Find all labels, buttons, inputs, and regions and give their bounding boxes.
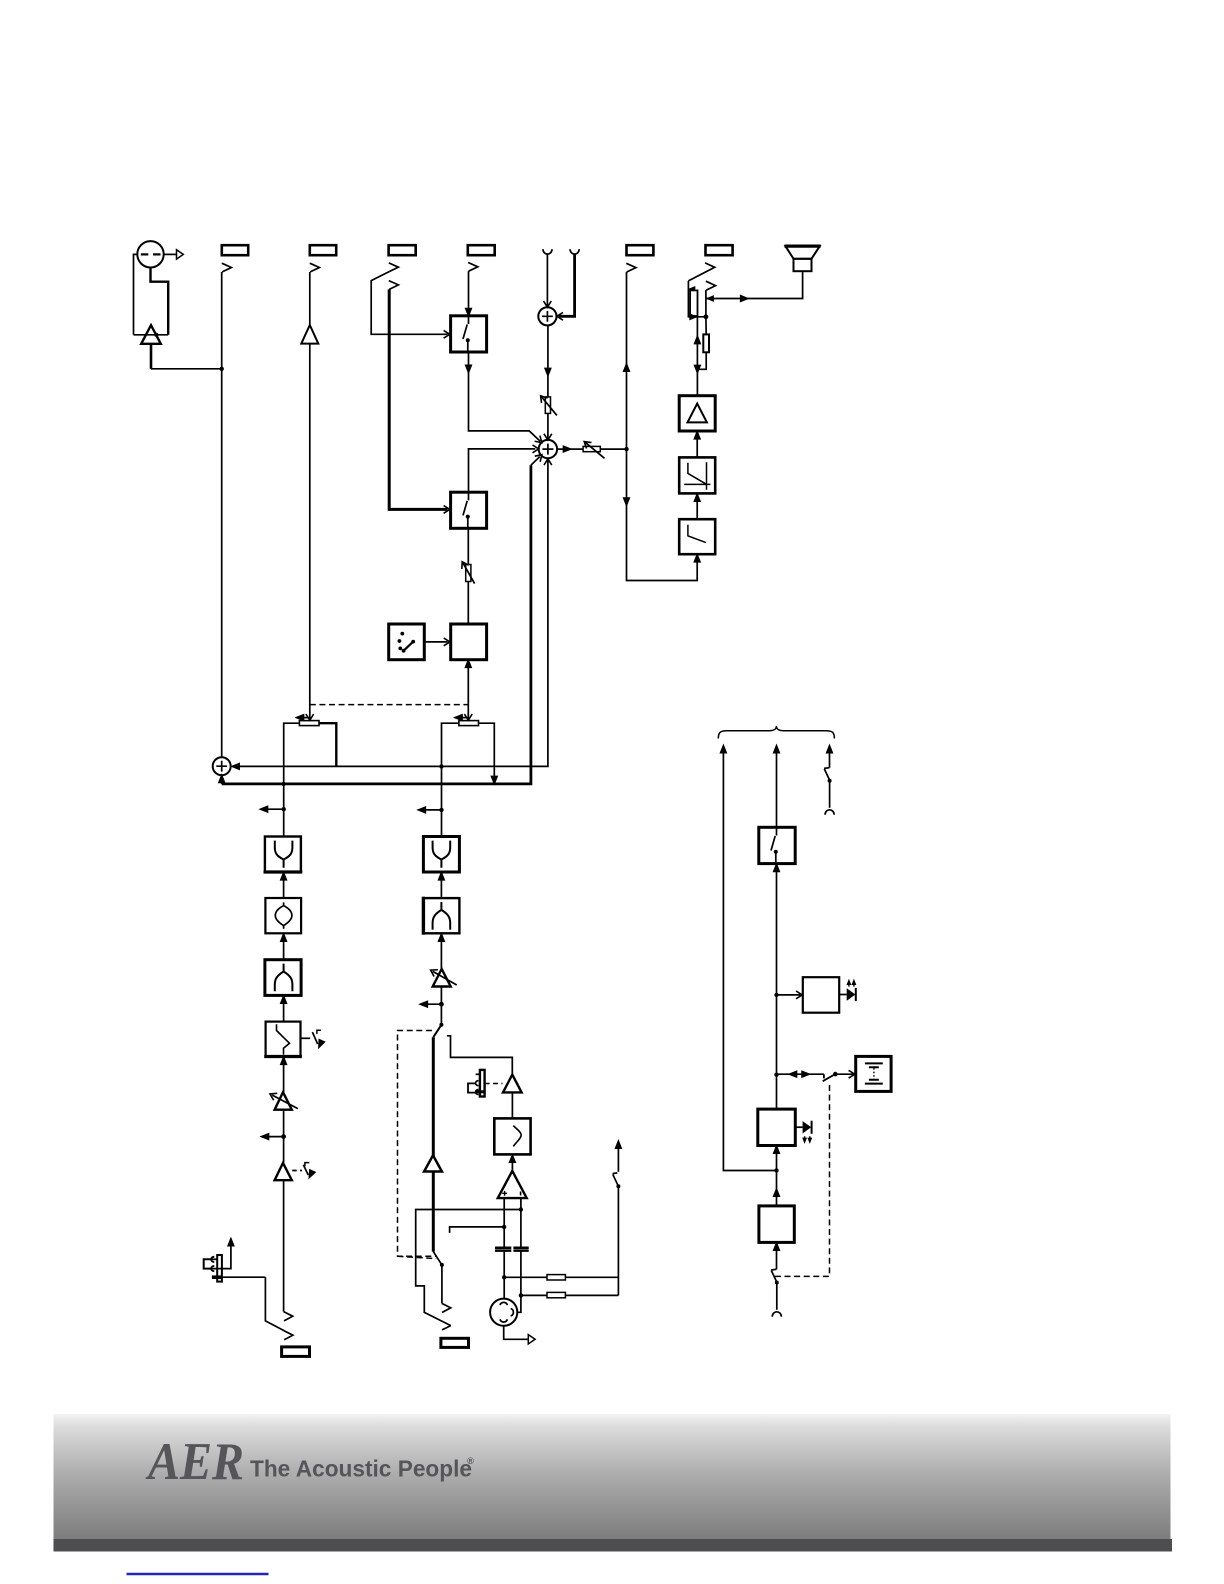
XLR out pin top <box>500 1302 507 1305</box>
XLR out ground arrow <box>504 1326 528 1340</box>
arrow right on speaker wire <box>741 296 748 301</box>
banner gradient bar <box>54 1414 1171 1539</box>
box A1 merge <box>265 837 301 873</box>
pot P2 body <box>459 721 479 726</box>
speaker wire <box>706 271 803 298</box>
bottom jack tip B <box>442 1326 451 1330</box>
LED 2 arrows <box>805 1136 810 1140</box>
power bottom switch <box>771 1269 777 1282</box>
SWB switch glyph <box>771 828 777 863</box>
wire M bottom to master bus <box>221 775 223 784</box>
wire C1-D1 <box>283 995 285 1021</box>
pot P2 wiper arrow left <box>457 717 467 719</box>
effect box EFX <box>451 624 487 660</box>
arrow down on SW1 output <box>466 365 471 372</box>
wire LIM1 to PA <box>696 432 698 458</box>
input 1 connector label <box>222 245 248 255</box>
tap arrow left ch2 low <box>422 1003 441 1005</box>
wire input 2 to amp <box>309 272 311 326</box>
wire input 1 down to monitor sum <box>221 272 223 758</box>
blue footer line <box>127 1573 269 1576</box>
SW1 switch glyph <box>463 317 469 352</box>
power wire W2 <box>776 747 778 828</box>
node W1 return <box>774 1168 778 1172</box>
arrow into pot1 wiper <box>306 714 314 720</box>
bottom jack column: feed taps <box>416 1210 521 1326</box>
input 4 jack tip <box>468 263 478 272</box>
wire EFX bottom to pot2, up-arrow into EFX <box>467 660 469 720</box>
limiter box LIM1 <box>679 457 715 493</box>
balanced driver T7 <box>498 1171 527 1198</box>
pot P2 left terminal <box>442 723 459 766</box>
wire DI circle bottom step <box>151 268 169 335</box>
footswitch open box <box>468 1083 475 1092</box>
wire sub-sum to VR1 to S <box>547 325 549 439</box>
rotary selector box SEL <box>389 624 425 660</box>
wire A2-B2 <box>440 872 442 898</box>
wire below LED box 2 <box>776 1146 778 1206</box>
insert wire up arrow <box>617 1148 619 1172</box>
wire T6 down to fx switch <box>440 987 442 1025</box>
diagonal master bus into S lower-left <box>531 457 540 466</box>
arrow diag into sum upper-left <box>535 436 545 446</box>
speaker jack label <box>706 245 733 255</box>
wire hook L to sub-sum <box>546 254 548 306</box>
power wire W1 <box>723 747 775 1171</box>
SEL dots and lever <box>400 632 404 636</box>
insert return column <box>617 1186 619 1295</box>
footswitch pin hooks <box>476 1081 479 1095</box>
node jack main line <box>704 314 709 319</box>
input 4 connector label <box>468 245 495 255</box>
arrow SEL to EFX <box>424 641 447 643</box>
resistor R2v <box>703 334 709 352</box>
LED 2 symbol <box>795 1126 802 1128</box>
limiter box LIM2 <box>679 519 715 554</box>
mute amp T5 <box>275 1163 292 1180</box>
battery symbol <box>865 1063 883 1083</box>
wire SW1 to sum (upper diagonal) <box>469 352 541 441</box>
wire horizontal through DI triangle <box>134 334 169 336</box>
DI output arrow (hollow) <box>164 253 176 255</box>
arrow up on PA feed <box>695 337 700 344</box>
footswitch connector insulator <box>480 1070 485 1097</box>
svg-text:®: ® <box>467 1456 474 1467</box>
speaker jack tip A <box>688 263 714 281</box>
sub-sum circle <box>538 307 556 325</box>
wire to power connector hook <box>776 1283 778 1310</box>
arrow down into S top <box>544 434 552 440</box>
arrow into switchbox SW2 <box>444 506 450 514</box>
capacitor C1 <box>495 1248 511 1251</box>
tap arrow left ch1 <box>263 808 284 810</box>
arrow up into S from below <box>544 459 552 465</box>
LIM2 curve glyph <box>688 525 706 543</box>
battery box <box>856 1056 891 1091</box>
bottom jack tip A <box>442 1303 451 1312</box>
D1 bypass switch <box>301 1037 310 1039</box>
input 3 jack tip A <box>389 263 399 272</box>
wire B2 to T6 <box>440 933 442 969</box>
bottom jack label <box>441 1338 469 1347</box>
variable amp T4 <box>275 1092 292 1110</box>
resistor Rh1 <box>504 1276 547 1278</box>
speaker body <box>794 259 812 271</box>
node on line-out column <box>624 447 628 451</box>
XLR out pin bottom <box>500 1319 507 1322</box>
wire T4 down <box>283 1110 285 1163</box>
arrow up into M bottom <box>219 776 224 783</box>
line out label <box>627 245 654 255</box>
DI jack switch arm <box>265 1277 284 1330</box>
bypass buffer amp triangle <box>424 1155 442 1171</box>
speaker horn <box>786 246 820 259</box>
tap arrow left ch1 low <box>264 1136 284 1138</box>
input 2 amp triangle <box>301 325 318 344</box>
speaker jack tip B <box>706 281 716 290</box>
variable resistor VR2 <box>466 565 471 582</box>
line out jack tip <box>626 263 636 272</box>
arrow into sum left <box>533 445 539 453</box>
XLR DI connector: open box <box>204 1259 213 1268</box>
pot P1 left terminal <box>284 723 300 784</box>
master bus wire (bold) <box>222 465 531 784</box>
wire B1-C1 <box>283 933 285 959</box>
svg-text:AER: AER <box>145 1433 244 1491</box>
tap arrow left ch2 <box>420 809 441 811</box>
thick bypass wire <box>432 1037 435 1251</box>
wire ground to jack arm <box>222 1276 265 1278</box>
bottom jack contact stub <box>450 1227 505 1233</box>
node input1/DI junction <box>220 367 224 371</box>
banner dark strip <box>54 1539 1173 1552</box>
wire Tfs to FILT <box>511 1092 513 1118</box>
XLR insulator bar <box>217 1255 222 1282</box>
pot P1 right terminal <box>319 723 336 766</box>
power brace <box>718 726 834 739</box>
variable amp T6 <box>433 969 451 987</box>
resistor R1v <box>690 290 697 316</box>
input 2 connector label <box>310 245 336 255</box>
variable resistor VR1 <box>545 397 550 414</box>
node DI triangle right <box>154 333 158 337</box>
switch box SW1 <box>451 316 487 352</box>
T7 minus tick <box>520 1192 522 1196</box>
LED 1 symbol <box>839 994 847 996</box>
S output arrow right <box>557 448 564 450</box>
wire D1 to T4 <box>283 1057 285 1093</box>
box A2 merge <box>423 837 459 873</box>
ganged dashed link between pots <box>310 704 469 706</box>
arrow down on line-out column <box>624 498 629 505</box>
filter box FILT <box>494 1118 530 1154</box>
sum circle S <box>539 440 557 458</box>
input 1 jack tip <box>222 263 232 272</box>
arrow down mid <box>545 369 550 376</box>
battery link wire with double arrows <box>777 1073 824 1075</box>
arrow into switchbox SW1 <box>444 330 450 338</box>
DI output circle <box>137 241 163 267</box>
wire DI left loop <box>134 254 138 334</box>
XLR pin line 2 to up arrow <box>212 1244 231 1269</box>
PA triangle <box>688 404 707 423</box>
wire LIM2 to LIM1 <box>696 494 698 519</box>
wire channel2 chain top <box>441 766 443 836</box>
DI jack tip A <box>284 1312 293 1321</box>
fx send contact stub <box>447 1036 512 1075</box>
switch box SW2 <box>451 492 487 528</box>
capacitor C2 <box>513 1248 528 1251</box>
wire DI amp to input1 bus <box>150 344 153 369</box>
wire T7 to FILT with up arrow <box>511 1154 513 1171</box>
DI jack tip B <box>284 1331 293 1340</box>
SW2 switch glyph <box>463 493 469 528</box>
node on line A <box>502 1275 506 1279</box>
wire jack tip A down (left bypass) <box>688 281 705 317</box>
XLR pin line 1 <box>212 1258 217 1260</box>
wire jack main line <box>705 290 707 317</box>
dashed mechanical link <box>775 1084 830 1277</box>
aux input hook L <box>543 249 552 254</box>
arrow into pot2 wiper <box>464 714 472 720</box>
arrow left toward jack <box>707 296 713 301</box>
LED 1 light arrows <box>849 982 854 987</box>
LED box 2 <box>758 1109 796 1145</box>
LIM1 curve glyph <box>684 462 710 490</box>
aux input hook R <box>570 249 579 254</box>
power wire W3 with switch <box>829 747 831 768</box>
box B2 split <box>423 898 459 933</box>
box C1 split <box>265 960 301 996</box>
insert switch arm <box>613 1173 619 1186</box>
pot P2 right terminal <box>479 723 495 783</box>
DI circle pin dashes <box>141 253 149 255</box>
footswitch dashed to mute amp <box>485 1083 503 1085</box>
arrow up into LIM2 bottom <box>695 555 700 562</box>
T5 bypass dashed switch <box>292 1170 302 1172</box>
wires T7 to caps <box>504 1198 521 1247</box>
node to LED box 1 <box>774 993 778 997</box>
wire below SWB <box>776 864 778 1110</box>
W3 wire to connector hook <box>829 781 831 808</box>
input 3 switch arm to ring wire <box>371 272 447 335</box>
footswitch pin ground bar <box>476 1090 485 1093</box>
node on line B <box>519 1293 523 1297</box>
wire main feed to PA <box>696 317 698 396</box>
wire input 2 amp to pot 1 <box>309 344 311 720</box>
wire VR3 to line-out column <box>600 448 626 450</box>
pot P1 body <box>299 721 319 726</box>
pot P1 wiper arrow left <box>299 717 309 719</box>
battery switch arm <box>823 1074 836 1081</box>
dashed bypass frame <box>398 1031 437 1257</box>
W3 switch arm <box>824 768 830 780</box>
T7 plus mark <box>502 1191 507 1196</box>
arrow left at resistor top <box>689 287 694 291</box>
wire VR2 to effect box <box>467 582 469 624</box>
wire input 4 down <box>468 271 470 315</box>
node P1 left on master bus <box>282 782 286 786</box>
wire input 3 thick to SW2 <box>389 289 447 509</box>
wire resistor R2v branch <box>697 317 706 370</box>
arrow right on bottom link <box>690 314 696 319</box>
wire line-out column <box>627 272 698 581</box>
arrow down at rejoin <box>695 366 700 373</box>
DI jack label <box>282 1347 310 1357</box>
dashed link to jack arm <box>398 1256 437 1258</box>
bottom jack switch arm from bypass <box>433 1252 442 1265</box>
XLR pin hooks <box>211 1257 214 1272</box>
wires caps down <box>504 1251 521 1313</box>
wire below B3 <box>776 1242 778 1269</box>
LED box 1 <box>803 977 839 1013</box>
input 2 jack tip <box>310 263 320 272</box>
footswitch stub top <box>476 1073 480 1075</box>
variable resistor VR3 (horizontal) <box>583 446 600 451</box>
XLR balanced out circle <box>490 1299 517 1326</box>
arrow up on line-out column <box>624 364 629 371</box>
wire channel1 chain top <box>283 784 285 837</box>
monitor bus wire <box>233 460 548 767</box>
node battery link <box>774 1073 778 1077</box>
wire SW2 to variable resistor <box>467 528 469 564</box>
XLR ground bar <box>212 1275 223 1279</box>
arrow P2 right into master bus <box>492 777 497 784</box>
XLR out pin right <box>511 1309 514 1316</box>
power box B3 <box>759 1206 794 1243</box>
input 3 jack tip B <box>389 281 399 290</box>
bottom jack main wire <box>441 1265 443 1303</box>
DI amp triangle <box>141 325 161 344</box>
wire T5 to DI jack <box>283 1180 285 1311</box>
monitor sum circle M <box>213 757 231 775</box>
arrow into SW1 top <box>466 309 471 316</box>
wire A1-B1 <box>283 872 285 898</box>
wire hook R to sub-sum right (thick) <box>559 254 575 316</box>
fx send switch <box>439 1023 443 1027</box>
resistor Rh2 <box>521 1294 547 1296</box>
relay box SWB <box>759 827 795 863</box>
input 3 connector label <box>389 245 416 255</box>
fx mute amp Tfs <box>503 1075 522 1093</box>
wire sum left input / SW2 feed <box>469 449 536 492</box>
svg-text:The Acoustic People: The Acoustic People <box>250 1456 472 1482</box>
box B1 notch <box>265 898 301 933</box>
arrow into M right <box>232 764 239 769</box>
power amp box PA <box>679 396 715 431</box>
box D1 contour <box>266 1022 301 1057</box>
node P2 left on monitor bus <box>439 764 443 768</box>
